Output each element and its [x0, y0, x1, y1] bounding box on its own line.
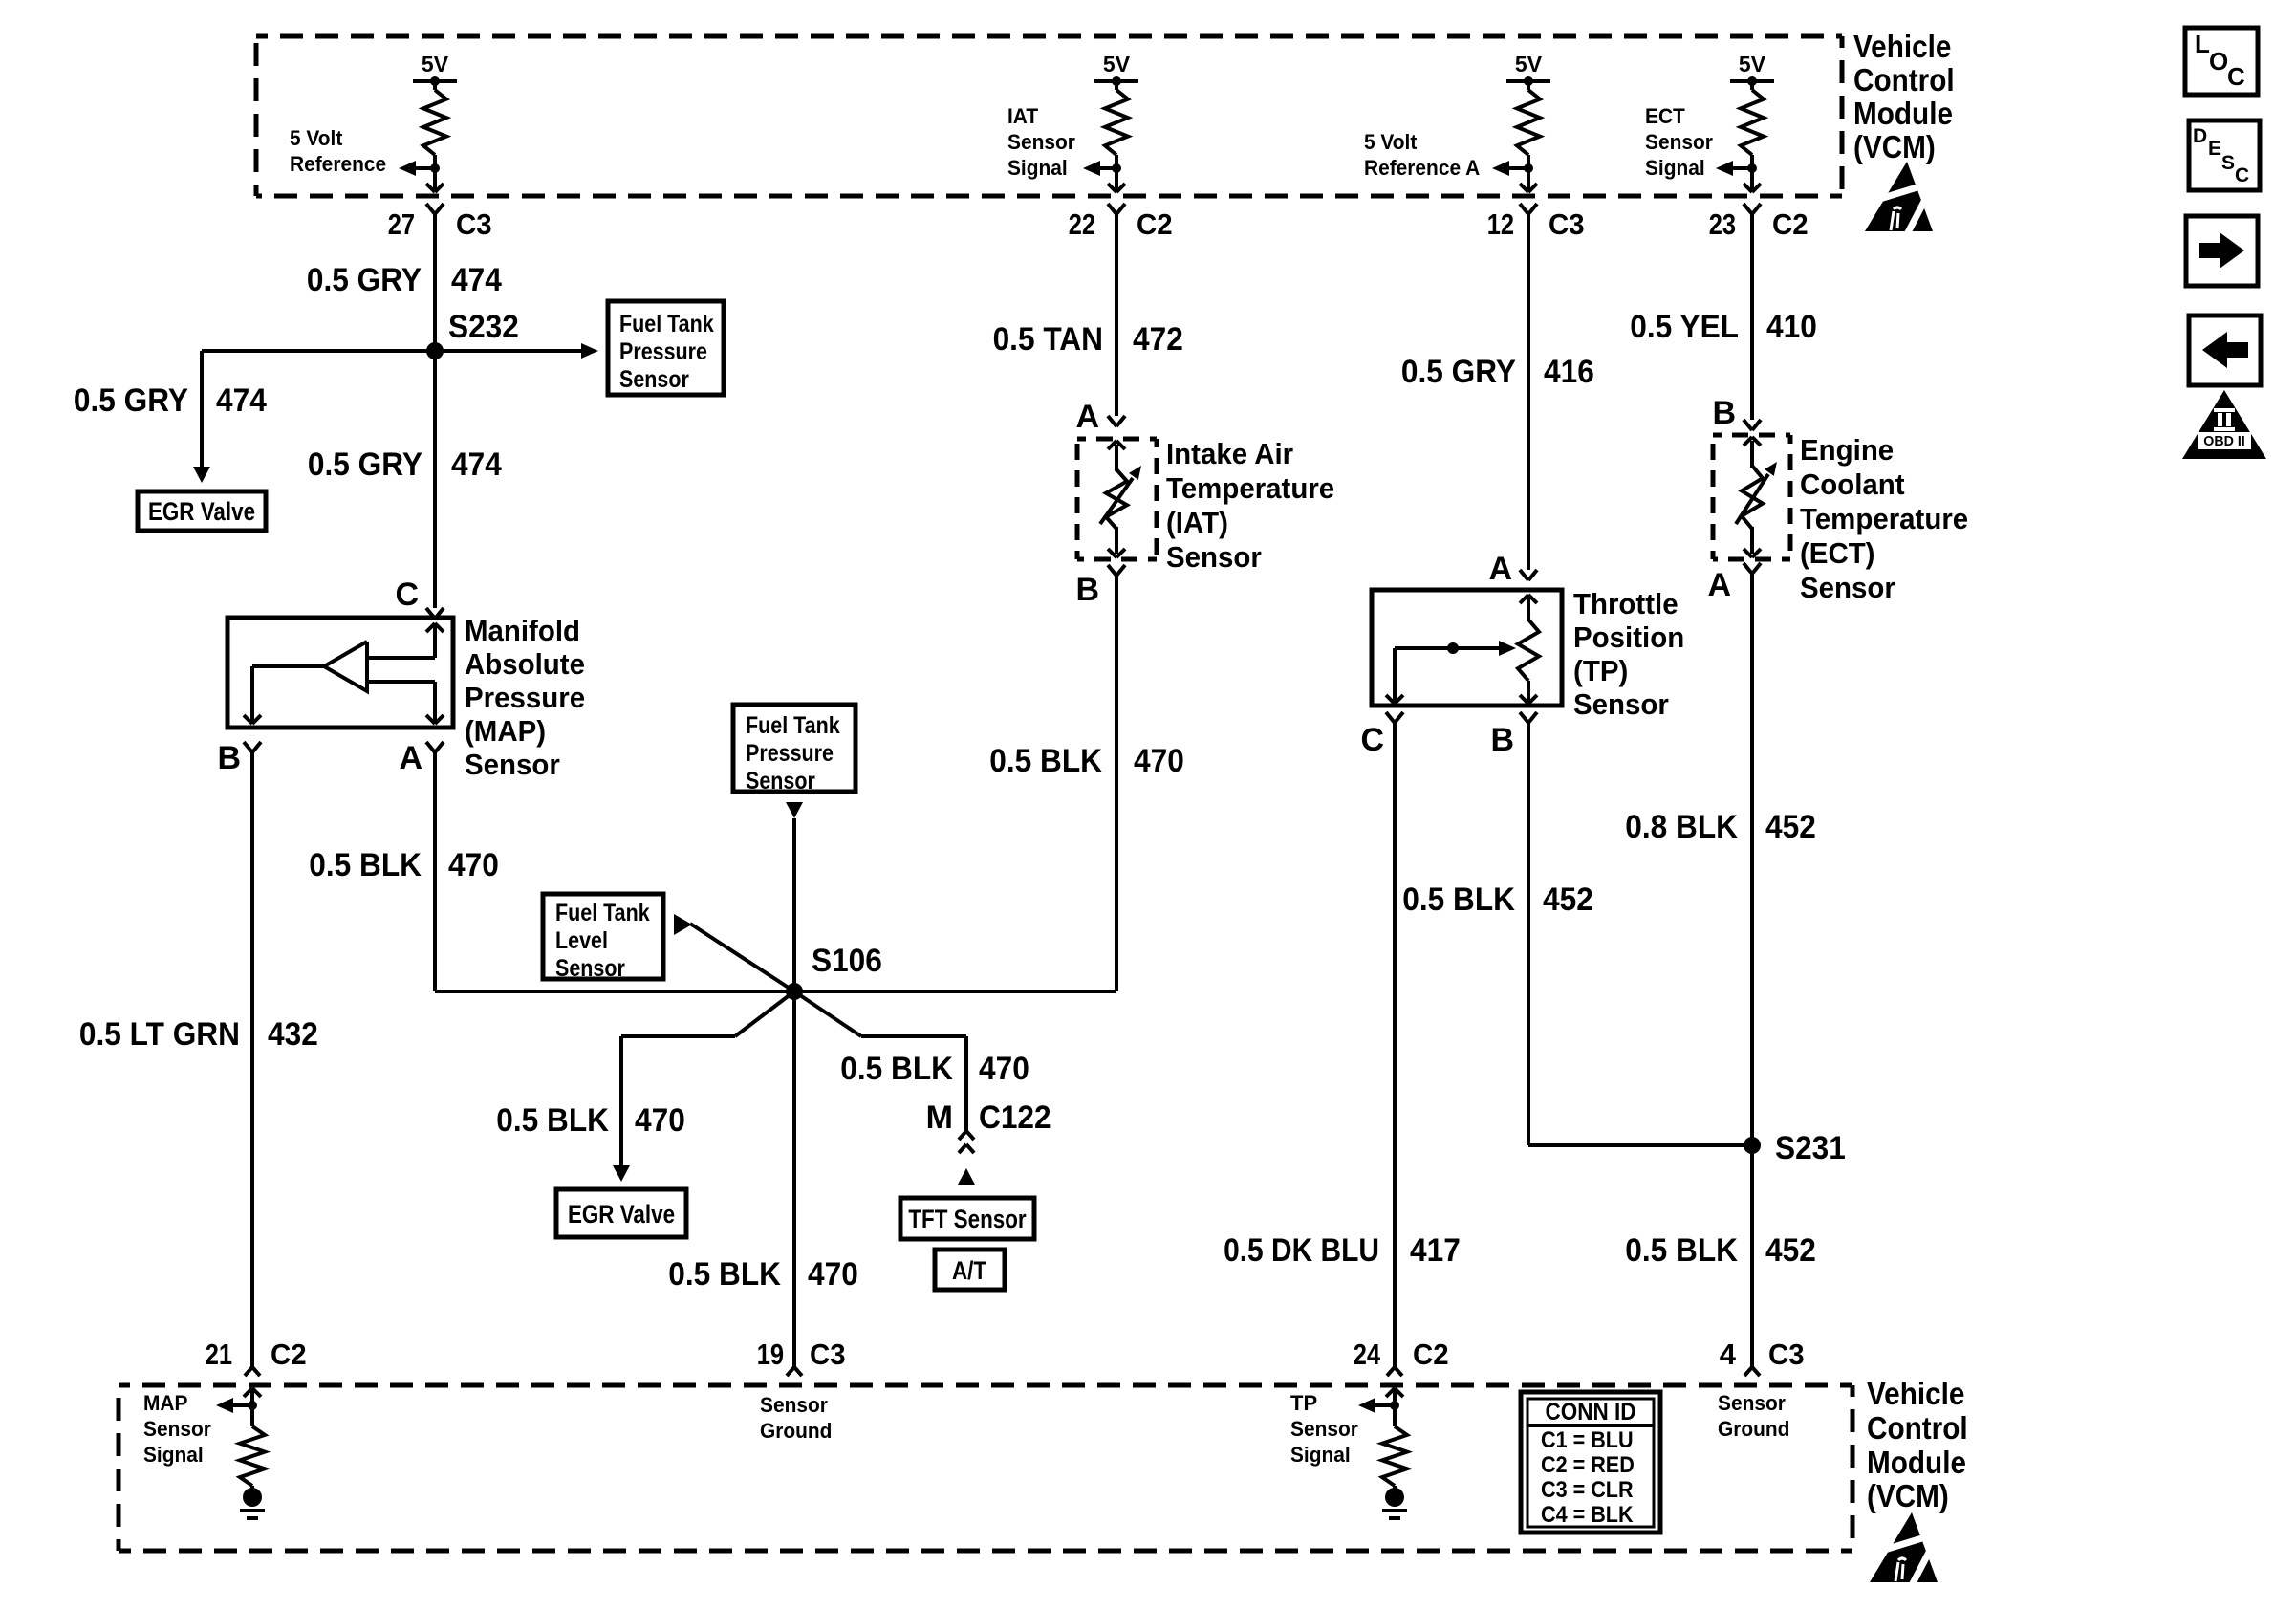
- svg-text:S: S: [2221, 152, 2235, 174]
- svg-text:Signal: Signal: [143, 1443, 204, 1467]
- svg-text:Vehicle: Vehicle: [1867, 1376, 1964, 1411]
- svg-text:(ECT): (ECT): [1800, 536, 1875, 570]
- svg-text:Sensor: Sensor: [1007, 130, 1075, 154]
- svg-text:EGR Valve: EGR Valve: [568, 1200, 675, 1229]
- svg-text:0.5 BLK: 0.5 BLK: [496, 1102, 609, 1139]
- wire 470 S106 down to pin 19: [792, 991, 796, 1367]
- svg-text:0.8 BLK: 0.8 BLK: [1625, 809, 1738, 845]
- wire 472 from pin 22 to IAT pin A: [1115, 214, 1118, 416]
- label Engine Coolant Temperature (ECT) Sensor: [1800, 433, 1968, 604]
- svg-text:0.5 TAN: 0.5 TAN: [993, 321, 1103, 358]
- svg-text:C2 = RED: C2 = RED: [1541, 1452, 1635, 1478]
- wire 470 MAP A down to S106 bus: [433, 752, 437, 991]
- svg-text:Module: Module: [1867, 1445, 1966, 1480]
- pin B of IAT sensor: [1075, 565, 1125, 608]
- Vehicle Control Module (VCM) top dashed box: [256, 36, 1842, 196]
- svg-text:Coolant: Coolant: [1800, 468, 1905, 501]
- svg-text:452: 452: [1543, 881, 1593, 918]
- svg-text:24: 24: [1354, 1338, 1381, 1371]
- svg-text:19: 19: [757, 1338, 784, 1371]
- label Vehicle Control Module (VCM) bottom right: [1867, 1376, 1968, 1513]
- svg-text:22: 22: [1069, 207, 1095, 241]
- svg-text:L: L: [2195, 30, 2210, 58]
- svg-text:C3: C3: [810, 1338, 846, 1371]
- label 0.5 YEL 410: [1630, 309, 1817, 345]
- svg-text:C4 = BLK: C4 = BLK: [1541, 1502, 1634, 1528]
- svg-text:470: 470: [1134, 743, 1184, 779]
- svg-text:0.5 DK BLU: 0.5 DK BLU: [1224, 1232, 1379, 1269]
- svg-text:S231: S231: [1775, 1130, 1846, 1166]
- svg-text:Temperature: Temperature: [1800, 502, 1968, 535]
- wire from Fuel Tank Level Sensor to S106 with arrow: [674, 914, 794, 991]
- svg-text:Fuel Tank: Fuel Tank: [746, 712, 840, 739]
- wire 416 from pin 12 to TP pin A: [1527, 214, 1530, 570]
- svg-text:C3: C3: [1768, 1338, 1805, 1371]
- svg-text:470: 470: [635, 1102, 685, 1139]
- ESD susceptibility symbol top: [1861, 162, 1933, 238]
- svg-text:Sensor: Sensor: [1573, 687, 1669, 721]
- pin A of TP sensor: [1488, 551, 1537, 587]
- Fuel Tank Level Sensor box: [543, 894, 663, 982]
- Fuel Tank Pressure Sensor box (right of S232): [608, 301, 724, 395]
- pin 21 connector C2: [206, 1338, 307, 1376]
- svg-text:S232: S232: [448, 309, 519, 345]
- svg-text:Sensor: Sensor: [465, 748, 560, 781]
- svg-text:TP: TP: [1290, 1391, 1317, 1415]
- svg-text:0.5 BLK: 0.5 BLK: [309, 847, 422, 883]
- svg-text:0.5 BLK: 0.5 BLK: [1625, 1232, 1738, 1269]
- pin C of TP sensor: [1360, 712, 1403, 758]
- label 0.5 LT GRN 432: [79, 1016, 318, 1053]
- label ECT Sensor Signal: [1645, 104, 1713, 180]
- svg-text:0.5 BLK: 0.5 BLK: [1402, 881, 1515, 918]
- svg-text:C2: C2: [1137, 207, 1173, 241]
- Fuel Tank Pressure Sensor box (above S106): [733, 705, 856, 794]
- CONN ID table: [1521, 1392, 1660, 1533]
- svg-text:C: C: [1360, 722, 1384, 758]
- svg-text:Level: Level: [555, 927, 608, 954]
- svg-text:ECT: ECT: [1645, 104, 1685, 128]
- label 0.8 BLK 452: [1625, 809, 1816, 845]
- resistor 5V pull-up (IAT Sensor Signal) on net 5V: [1083, 52, 1138, 192]
- svg-text:Reference A: Reference A: [1364, 156, 1480, 180]
- ECT sensor dashed box: [1713, 435, 1790, 559]
- svg-text:27: 27: [388, 207, 415, 241]
- svg-text:Ground: Ground: [760, 1419, 832, 1443]
- svg-text:Signal: Signal: [1290, 1443, 1351, 1467]
- label 0.5 BLK 470 (TFT branch): [840, 1051, 1029, 1087]
- svg-text:5V: 5V: [1103, 52, 1131, 76]
- svg-text:0.5 BLK: 0.5 BLK: [989, 743, 1102, 779]
- TFT Sensor box: [900, 1198, 1034, 1239]
- svg-text:416: 416: [1544, 354, 1594, 390]
- label 0.5 DK BLU 417: [1224, 1232, 1461, 1269]
- Vehicle Control Module (VCM) bottom dashed box: [119, 1385, 1852, 1551]
- LOC navigation icon: [2185, 28, 2258, 95]
- label 0.5 BLK 470 (to pin 19): [668, 1256, 858, 1293]
- svg-text:5 Volt: 5 Volt: [290, 126, 343, 150]
- svg-text:Sensor: Sensor: [1290, 1417, 1358, 1441]
- svg-text:C2: C2: [271, 1338, 307, 1371]
- resistor 5V pull-up (ECT Sensor Signal) on net 5V: [1716, 52, 1774, 192]
- svg-text:5V: 5V: [1515, 52, 1543, 76]
- label 0.5 BLK 452 (below S231): [1625, 1232, 1816, 1269]
- svg-text:Engine: Engine: [1800, 433, 1894, 467]
- svg-text:CONN ID: CONN ID: [1546, 1399, 1636, 1425]
- label 0.5 BLK 470 (IAT B): [989, 743, 1184, 779]
- svg-text:Sensor: Sensor: [1166, 540, 1262, 574]
- svg-text:A: A: [1488, 551, 1512, 587]
- svg-text:A: A: [1075, 399, 1099, 435]
- svg-text:0.5 LT GRN: 0.5 LT GRN: [79, 1016, 240, 1053]
- wire 474 from S232 to MAP pin C: [433, 351, 437, 608]
- svg-text:A/T: A/T: [952, 1256, 987, 1285]
- svg-text:A: A: [1707, 567, 1731, 603]
- MAP sensor box (Manifold Absolute Pressure): [227, 618, 453, 728]
- wire from Fuel Tank Pressure Sensor to S106 with arrow: [786, 802, 803, 991]
- label Sensor Ground (pin 19): [760, 1393, 832, 1443]
- svg-text:472: 472: [1133, 321, 1183, 358]
- svg-text:C: C: [2235, 164, 2249, 186]
- svg-text:474: 474: [451, 446, 502, 483]
- wire S106 to TFT Sensor branch: [794, 991, 966, 1131]
- wire 410 from pin 23 to ECT pin B: [1750, 214, 1754, 420]
- svg-text:Intake Air: Intake Air: [1166, 437, 1293, 470]
- svg-text:(MAP): (MAP): [465, 714, 546, 748]
- svg-text:0.5 BLK: 0.5 BLK: [840, 1051, 953, 1087]
- svg-text:(VCM): (VCM): [1867, 1478, 1949, 1513]
- svg-text:0.5 GRY: 0.5 GRY: [1401, 354, 1516, 390]
- svg-text:S106: S106: [812, 943, 882, 979]
- label MAP Sensor Signal: [143, 1391, 211, 1467]
- DESC navigation icon: [2189, 120, 2260, 190]
- label Throttle Position (TP) Sensor: [1573, 587, 1684, 721]
- MAP sensor internals (op-amp symbol and pin arrows): [244, 623, 444, 724]
- svg-text:C1 = BLU: C1 = BLU: [1541, 1427, 1634, 1453]
- ECT thermistor: [1736, 437, 1777, 557]
- svg-text:Fuel Tank: Fuel Tank: [555, 900, 650, 926]
- pin A of MAP sensor: [399, 740, 444, 776]
- svg-text:M: M: [926, 1099, 953, 1136]
- svg-text:(IAT): (IAT): [1166, 506, 1228, 539]
- forward arrow navigation icon: [2186, 216, 2258, 286]
- svg-text:Sensor: Sensor: [143, 1417, 211, 1441]
- splice S232: [426, 309, 519, 359]
- svg-text:5V: 5V: [1739, 52, 1766, 76]
- wire 470 IAT B down to S106 bus: [1115, 576, 1118, 991]
- pin C of MAP sensor: [395, 577, 444, 619]
- pin A of IAT sensor: [1075, 399, 1125, 435]
- svg-text:Vehicle: Vehicle: [1853, 29, 1951, 64]
- svg-text:OBD II: OBD II: [2203, 433, 2245, 449]
- svg-text:0.5 GRY: 0.5 GRY: [308, 446, 422, 483]
- svg-text:410: 410: [1766, 309, 1817, 345]
- pin 23 connector C2: [1709, 204, 1809, 241]
- svg-text:Module: Module: [1853, 96, 1953, 131]
- label Vehicle Control Module (VCM) top right: [1853, 29, 1955, 164]
- svg-text:Control: Control: [1853, 62, 1955, 98]
- svg-text:417: 417: [1410, 1232, 1461, 1269]
- label 5 Volt Reference: [290, 126, 386, 176]
- A/T box: [935, 1250, 1005, 1290]
- label 0.5 BLK 470 (EGR branch): [496, 1102, 685, 1139]
- svg-text:470: 470: [448, 847, 499, 883]
- svg-text:Signal: Signal: [1007, 156, 1068, 180]
- svg-text:C: C: [395, 577, 419, 613]
- svg-text:Sensor: Sensor: [1800, 571, 1895, 604]
- wire S106 to EGR Valve branch: [613, 991, 794, 1182]
- svg-text:432: 432: [268, 1016, 318, 1053]
- svg-text:Absolute: Absolute: [465, 647, 585, 681]
- svg-text:B: B: [217, 740, 241, 776]
- label 0.5 BLK 470 (MAP A): [309, 847, 499, 883]
- wire S232 left branch to EGR Valve: [193, 351, 435, 483]
- svg-text:B: B: [1712, 395, 1736, 431]
- svg-text:452: 452: [1765, 809, 1816, 845]
- svg-text:MAP: MAP: [143, 1391, 187, 1415]
- svg-text:474: 474: [216, 382, 267, 419]
- svg-text:Sensor: Sensor: [760, 1393, 828, 1417]
- svg-text:Fuel Tank: Fuel Tank: [619, 311, 714, 337]
- pin 24 connector C2: [1354, 1338, 1449, 1376]
- svg-text:Sensor: Sensor: [1645, 130, 1713, 154]
- svg-text:Pressure: Pressure: [746, 740, 834, 767]
- wire sensor-ground bus (S106 horizontal): [435, 990, 1116, 993]
- svg-text:D: D: [2193, 125, 2207, 147]
- svg-text:Signal: Signal: [1645, 156, 1705, 180]
- pin 27 connector C3: [388, 204, 492, 241]
- label 0.5 GRY 474 left branch: [74, 382, 267, 419]
- EGR Valve box (center): [556, 1189, 686, 1237]
- label IAT Sensor Signal: [1007, 104, 1075, 180]
- splice S106: [786, 943, 882, 1000]
- svg-text:B: B: [1490, 722, 1514, 758]
- svg-text:0.5 GRY: 0.5 GRY: [74, 382, 188, 419]
- pin B of MAP sensor: [217, 740, 261, 776]
- svg-text:4: 4: [1720, 1338, 1737, 1371]
- resistor 5V pull-up (5 Volt Reference A) on net 5V: [1492, 52, 1550, 192]
- svg-text:EGR Valve: EGR Valve: [148, 497, 255, 526]
- svg-text:470: 470: [808, 1256, 858, 1293]
- label Intake Air Temperature (IAT) Sensor: [1166, 437, 1334, 574]
- pin B of TP sensor: [1490, 712, 1537, 758]
- svg-text:Position: Position: [1573, 620, 1684, 654]
- pin 19 connector C3: [757, 1338, 846, 1376]
- svg-text:Sensor: Sensor: [619, 366, 689, 393]
- svg-text:Sensor: Sensor: [555, 955, 625, 982]
- svg-text:Pressure: Pressure: [465, 681, 585, 714]
- MAP Sensor Signal input resistor and ground: [216, 1388, 265, 1518]
- svg-text:(VCM): (VCM): [1853, 129, 1936, 164]
- svg-text:C2: C2: [1413, 1338, 1449, 1371]
- label 0.5 TAN 472: [993, 321, 1183, 358]
- splice S231: [1744, 1130, 1846, 1166]
- svg-text:Manifold: Manifold: [465, 614, 580, 647]
- label 0.5 GRY 474 lower: [308, 446, 502, 483]
- svg-text:C3: C3: [456, 207, 492, 241]
- pin A of ECT sensor: [1707, 563, 1761, 603]
- svg-text:Reference: Reference: [290, 152, 386, 176]
- svg-text:474: 474: [451, 262, 502, 298]
- svg-text:O: O: [2209, 47, 2228, 76]
- wire 452 ECT A down to pin 4: [1750, 572, 1754, 1367]
- svg-text:5 Volt: 5 Volt: [1364, 130, 1418, 154]
- EGR Valve box (left): [138, 491, 266, 531]
- wire 452 TP B to splice S231: [1528, 723, 1752, 1145]
- pin B of ECT sensor: [1712, 395, 1761, 431]
- back arrow navigation icon: [2189, 315, 2261, 385]
- svg-text:IAT: IAT: [1007, 104, 1039, 128]
- pin 22 connector C2: [1069, 204, 1173, 241]
- svg-text:E: E: [2208, 138, 2221, 160]
- label 0.5 BLK 452 (TP B): [1402, 881, 1593, 918]
- svg-text:23: 23: [1709, 207, 1736, 241]
- ESD susceptibility symbol bottom: [1866, 1512, 1938, 1589]
- svg-text:0.5 BLK: 0.5 BLK: [668, 1256, 781, 1293]
- label 5 Volt Reference A: [1364, 130, 1480, 180]
- label 0.5 GRY 474 upper: [307, 262, 502, 298]
- resistor 5V pull-up (5 Volt Reference) on net 5V: [399, 52, 457, 192]
- svg-text:C3: C3: [1549, 207, 1585, 241]
- svg-text:452: 452: [1765, 1232, 1816, 1269]
- arrow from TFT Sensor to C122: [958, 1168, 975, 1185]
- connector C122 pin M: [926, 1099, 1051, 1153]
- OBD II triangle icon: [2182, 390, 2266, 459]
- pin 4 connector C3: [1720, 1338, 1805, 1376]
- svg-text:Pressure: Pressure: [619, 338, 707, 365]
- svg-text:C122: C122: [979, 1099, 1051, 1136]
- svg-text:C: C: [2227, 62, 2245, 91]
- svg-text:Sensor: Sensor: [1718, 1391, 1786, 1415]
- label 0.5 GRY 416: [1401, 354, 1594, 390]
- svg-text:C3 = CLR: C3 = CLR: [1541, 1477, 1634, 1503]
- TP sensor internals (potentiometer): [1386, 595, 1539, 704]
- svg-text:Temperature: Temperature: [1166, 471, 1334, 505]
- label Sensor Ground (pin 4): [1718, 1391, 1789, 1441]
- IAT sensor dashed box: [1077, 439, 1157, 559]
- svg-text:Control: Control: [1867, 1410, 1968, 1446]
- wire S232 to Fuel Tank Pressure Sensor with arrow: [435, 343, 598, 359]
- svg-text:Sensor: Sensor: [746, 768, 815, 794]
- svg-text:TFT Sensor: TFT Sensor: [908, 1205, 1027, 1233]
- wire 417 TP C down to pin 24: [1393, 723, 1397, 1367]
- label Manifold Absolute Pressure (MAP) Sensor: [465, 614, 585, 781]
- svg-text:5V: 5V: [422, 52, 449, 76]
- TP Sensor Signal input resistor and ground: [1358, 1388, 1407, 1518]
- svg-text:B: B: [1075, 572, 1099, 608]
- svg-text:Throttle: Throttle: [1573, 587, 1679, 620]
- svg-text:C2: C2: [1772, 207, 1809, 241]
- pin 12 connector C3: [1487, 204, 1585, 241]
- svg-text:A: A: [399, 740, 422, 776]
- svg-text:21: 21: [206, 1338, 232, 1371]
- IAT thermistor: [1100, 441, 1141, 557]
- label TP Sensor Signal: [1290, 1391, 1358, 1467]
- svg-text:12: 12: [1487, 207, 1514, 241]
- svg-text:0.5 YEL: 0.5 YEL: [1630, 309, 1739, 345]
- wire 432 MAP B to pin 21: [250, 752, 254, 1367]
- wire 474 from pin 27 to S232: [433, 214, 437, 351]
- svg-text:470: 470: [979, 1051, 1029, 1087]
- Throttle Position (TP) sensor box: [1372, 590, 1562, 706]
- svg-text:(TP): (TP): [1573, 654, 1628, 687]
- svg-text:Ground: Ground: [1718, 1417, 1789, 1441]
- svg-text:0.5 GRY: 0.5 GRY: [307, 262, 422, 298]
